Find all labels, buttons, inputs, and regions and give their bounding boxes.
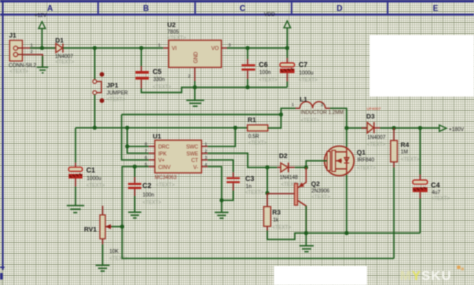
wire RV1 bottom to ground: [102, 244, 104, 265]
svg-text:<TEXT>: <TEXT>: [153, 85, 172, 91]
U2 VI pin stub: [163, 47, 168, 49]
jumper JP1: [93, 72, 119, 103]
node junction Q2 base / R3 top: [265, 191, 269, 195]
wire CINV pin5 to feedback column: [122, 167, 149, 227]
svg-text:E: E: [433, 4, 439, 13]
svg-text:C3: C3: [245, 176, 254, 183]
svg-text:U2: U2: [167, 22, 176, 29]
svg-text:SWE: SWE: [186, 151, 198, 157]
svg-text:330n: 330n: [153, 77, 165, 83]
connector J1: [9, 33, 22, 61]
svg-text:<TEXT>: <TEXT>: [55, 60, 74, 66]
svg-text:2: 2: [188, 74, 191, 79]
svg-text:<TEXT>: <TEXT>: [248, 140, 267, 146]
svg-text:<TEXT>: <TEXT>: [107, 97, 126, 103]
capacitor C1 (polarized): [69, 163, 96, 206]
header separator x291: [291, 2, 293, 13]
svg-text:V+: V+: [158, 158, 165, 164]
svg-text:JUMPER: JUMPER: [107, 91, 129, 97]
wire rail corner down to C1: [75, 128, 77, 163]
wire R1 right to VIN rail: [268, 115, 281, 129]
wire feedback bottom loop: [122, 227, 394, 259]
svg-text:3: 3: [228, 43, 231, 48]
node junction U2 GND on bus: [193, 85, 197, 89]
svg-text:C4: C4: [431, 183, 440, 190]
svg-text:R3: R3: [272, 209, 281, 216]
white mask box top right: [370, 35, 474, 97]
svg-text:Q2: Q2: [311, 181, 320, 188]
svg-text:1N4148: 1N4148: [280, 175, 298, 181]
svg-text:<TEXT>: <TEXT>: [167, 36, 186, 42]
node junction JP1 top: [93, 46, 97, 50]
node junction R4 top: [392, 126, 396, 130]
svg-text:DRC: DRC: [158, 145, 169, 151]
capacitor C5: [135, 48, 161, 89]
wire gate node to Q1 gate: [306, 161, 327, 168]
svg-text:D1: D1: [55, 38, 64, 45]
svg-text:<TEXT>: <TEXT>: [299, 78, 318, 84]
svg-text:7805: 7805: [167, 29, 179, 35]
svg-text:1k: 1k: [273, 218, 279, 224]
wire R4 bottom to loop: [393, 168, 395, 259]
IC U1 MC34063: [153, 134, 202, 173]
frame top bar: [0, 0, 474, 2]
svg-text:<TEXT>: <TEXT>: [301, 118, 320, 124]
svg-text:<TEXT>: <TEXT>: [401, 157, 420, 163]
node junction C6 top: [246, 46, 250, 50]
capacitor C3: [227, 172, 255, 190]
svg-text:1: 1: [30, 43, 33, 48]
header separator x195: [194, 2, 196, 13]
wire ground bus C5 to C7 with jog: [141, 87, 287, 92]
svg-text:R4: R4: [401, 142, 410, 149]
node junction C2 on CINV wire: [133, 165, 137, 169]
U2 GND pin stub: [194, 67, 196, 81]
svg-text:<TEXT>: <TEXT>: [367, 142, 386, 148]
wire VIN down to V+ pin6: [122, 115, 149, 160]
terminal arrow +180V: [439, 125, 464, 133]
diode D3: [366, 114, 375, 134]
diode D1: [55, 38, 64, 53]
node junction SWC branch: [233, 126, 237, 130]
svg-text:1: 1: [158, 43, 161, 48]
svg-text:1M: 1M: [401, 149, 408, 155]
capacitor C2: [128, 167, 151, 212]
svg-text:C6: C6: [259, 62, 268, 69]
svg-text:R1: R1: [248, 117, 257, 124]
capacitor C7 (polarized): [280, 48, 308, 87]
node junction drain / D3: [345, 126, 349, 130]
wire drive branch to DRC and IPK: [127, 128, 148, 153]
svg-text:IRF840: IRF840: [357, 158, 374, 164]
svg-text:D2: D2: [279, 153, 288, 160]
diode D2: [277, 153, 295, 172]
svg-text:<TEXT>: <TEXT>: [86, 183, 105, 189]
svg-text:+180V: +180V: [449, 127, 465, 133]
node junction DRC branch: [125, 144, 129, 148]
svg-text:IPK: IPK: [158, 151, 167, 157]
svg-text:<TEXT>: <TEXT>: [311, 195, 330, 201]
svg-text:C: C: [240, 4, 246, 13]
node junction gate / Q2 emitter: [304, 165, 308, 169]
wire SWC pin1 up to IPK rail: [208, 128, 236, 147]
svg-text:<TEXT>: <TEXT>: [272, 225, 291, 231]
svg-text:2: 2: [321, 102, 324, 107]
svg-text:D3: D3: [366, 114, 375, 121]
wire JP1 bottom to rail y127.8: [94, 95, 96, 128]
power +12V: [34, 13, 47, 48]
white mask box bottom: [274, 266, 367, 285]
wire SWE pin2 to D2 anode: [208, 153, 278, 167]
node junction ground rail: [304, 231, 308, 235]
svg-text:1000u: 1000u: [299, 70, 314, 76]
svg-text:UF4007: UF4007: [367, 106, 382, 111]
svg-text:CINV: CINV: [158, 165, 171, 171]
wire V- pin4 down to ground: [208, 167, 222, 213]
wire J1 pin1 to D1: [18, 47, 56, 49]
capacitor C6: [242, 48, 268, 87]
wire Q2 collector to ground rail: [305, 206, 307, 246]
wire C3 bottom to V- node: [222, 191, 234, 201]
svg-text:CT: CT: [191, 158, 199, 164]
svg-text:JP1: JP1: [107, 83, 119, 90]
node junction C6 bottom: [246, 85, 250, 89]
node junction Q1 source: [345, 231, 349, 235]
svg-text:<TEXT>: <TEXT>: [156, 182, 175, 188]
node junction RV1 wiper / feedback: [120, 225, 124, 229]
node junction C7 top: [285, 46, 289, 50]
node junction VIN / L1: [279, 113, 283, 117]
svg-text:C7: C7: [299, 62, 308, 69]
potentiometer RV1: [84, 206, 112, 245]
svg-text:<TEXT>: <TEXT>: [10, 69, 29, 75]
node junction +12V rail: [40, 46, 44, 50]
svg-text:VI: VI: [172, 46, 177, 52]
svg-text:1n: 1n: [246, 184, 252, 190]
wire U2 VO to VDD/C7: [227, 47, 287, 49]
svg-text:Q1: Q1: [357, 150, 366, 157]
node junction C4 top: [418, 126, 422, 130]
wire IPK rail y127.8 (C1 to R1): [76, 127, 248, 129]
svg-text:10K: 10K: [109, 249, 119, 255]
svg-text:4u7: 4u7: [432, 190, 441, 196]
svg-text:U1: U1: [153, 134, 162, 141]
svg-text:1: 1: [292, 102, 295, 107]
U2 VO pin stub: [221, 47, 227, 49]
svg-text:J1: J1: [9, 33, 17, 40]
capacitor C4 (polarized): [413, 128, 440, 233]
svg-text:VDD: VDD: [264, 12, 275, 18]
svg-text:100n: 100n: [143, 192, 155, 198]
svg-text:INDUCTOR 1.2MM: INDUCTOR 1.2MM: [301, 110, 344, 116]
svg-text:<TEXT>: <TEXT>: [431, 196, 450, 202]
svg-text:<TEXT>: <TEXT>: [245, 190, 264, 196]
regulator U2 7805: [167, 22, 221, 67]
ground (below C2): [128, 212, 141, 218]
ground (below C1): [67, 206, 84, 213]
transistor Q2 2N3906: [267, 167, 320, 233]
frame header bottom line: [0, 14, 474, 16]
ground (below RV1): [96, 265, 110, 271]
svg-text:<TEXT>: <TEXT>: [143, 200, 162, 206]
frame left ruler line: [2, 2, 4, 270]
resistor R3: [264, 193, 281, 231]
wire VIN rail y114.5: [122, 114, 281, 116]
MOSFET Q1 IRF840: [324, 128, 366, 176]
wire D2 anode node down to Q2 base node: [266, 167, 268, 193]
svg-text:2N3906: 2N3906: [311, 188, 329, 194]
svg-text:L1: L1: [300, 96, 308, 103]
wire L1 to drain node: [330, 108, 347, 128]
resistor R1: [247, 117, 267, 131]
wire D1 cathode to U2 VI (top rail y48): [63, 47, 163, 49]
wire source/ground rail y233: [306, 232, 420, 234]
inductor L1: [296, 96, 331, 108]
node junction C5 top: [139, 46, 143, 50]
node junction V- / C3: [220, 198, 224, 202]
wire CT pin3 to C3: [208, 160, 234, 172]
svg-text:1000u: 1000u: [87, 176, 102, 182]
wire D3 cathode to output: [374, 127, 380, 129]
wire Q1 source to sense rail: [346, 175, 348, 233]
header separator x387: [387, 2, 389, 13]
svg-text:MC34063: MC34063: [155, 175, 177, 181]
header separator x98: [97, 2, 99, 13]
watermark MYSKU: [400, 266, 464, 283]
svg-text:0.5R: 0.5R: [248, 134, 259, 140]
svg-text:A: A: [47, 4, 53, 13]
svg-text:GND: GND: [194, 51, 200, 63]
wire U2 GND to ground: [194, 81, 196, 100]
power VDD: [264, 12, 291, 48]
svg-text:D: D: [337, 4, 343, 13]
ground (below Q2): [299, 246, 313, 252]
resistor R4: [391, 128, 410, 168]
wire node to D3 anode: [347, 127, 368, 129]
svg-text:B: B: [143, 4, 149, 13]
svg-text:100n: 100n: [259, 70, 271, 76]
wire R3 bottom zig to ground rail: [267, 231, 306, 240]
svg-text:C5: C5: [153, 69, 162, 76]
frame bottom-left tick: [0, 267, 5, 268]
svg-text:V-: V-: [193, 165, 198, 171]
svg-text:RV1: RV1: [84, 226, 97, 233]
svg-text:C1: C1: [86, 168, 95, 175]
U1 left pin stubs: [149, 146, 155, 166]
wire VIN corner up to L1: [281, 108, 296, 114]
node junction U1 drive branch: [125, 126, 129, 130]
ground (below U2): [186, 100, 204, 106]
wire J1 pin2 to ground: [18, 55, 43, 67]
svg-text:1N4007: 1N4007: [367, 135, 385, 141]
svg-text:+12V: +12V: [34, 13, 47, 19]
svg-text:<TEXT>: <TEXT>: [259, 77, 278, 83]
svg-text:MYSKU: MYSKU: [400, 268, 452, 283]
svg-text:VO: VO: [211, 46, 219, 52]
svg-text:SWC: SWC: [186, 145, 198, 151]
ground (below J1): [37, 67, 48, 73]
node junction JP1 bottom on rail: [93, 126, 97, 130]
wire top rail to JP1: [94, 48, 96, 79]
svg-text:2: 2: [30, 49, 33, 54]
U1 right pin stubs: [202, 146, 208, 166]
svg-text:C2: C2: [142, 183, 151, 190]
wire D2 cathode to gate node: [295, 166, 306, 168]
svg-text:<TEXT>: <TEXT>: [357, 165, 376, 171]
ground (below V-): [215, 212, 229, 218]
node junction D2 anode / R3 branch: [265, 165, 269, 169]
wire RV1 wiper to feedback column: [112, 226, 123, 228]
